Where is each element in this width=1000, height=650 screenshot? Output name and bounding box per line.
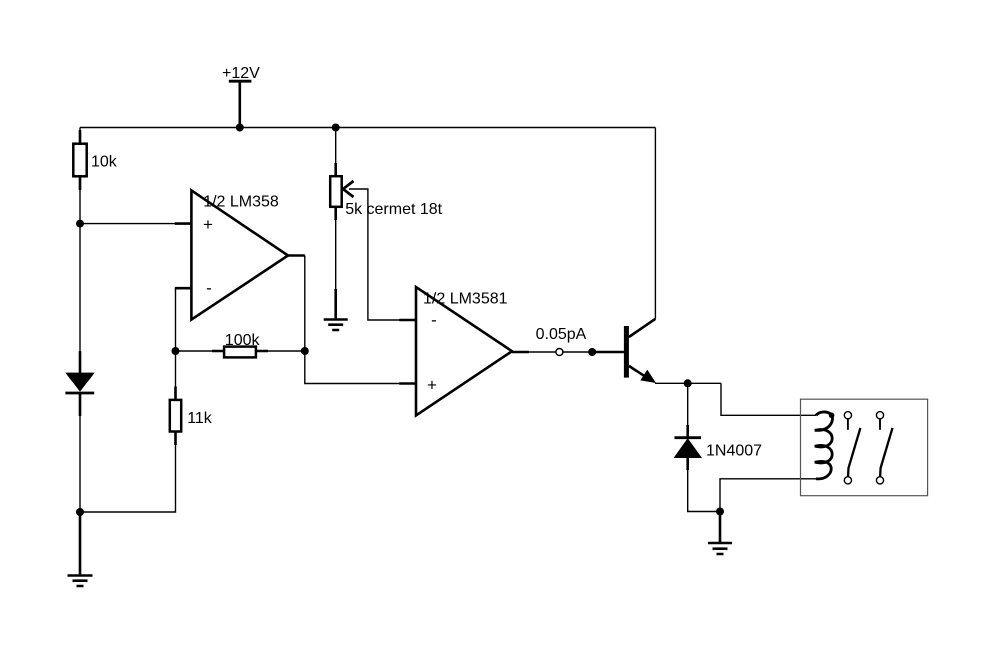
wire +input junction to op-amp U1 + stub [80,223,176,225]
junction U1 + input [76,220,84,228]
wire U2 output to probe circle [529,351,556,353]
wire left rail upper segment [79,128,81,144]
wire 100k body to right junction [268,350,305,352]
svg-text:11k: 11k [187,410,213,427]
diode D2 1N4007 [675,425,702,470]
svg-text:1/2 LM358: 1/2 LM358 [203,194,279,211]
potentiometer 5k cermet [330,163,353,220]
wire +input junction down to diode D1 [79,224,81,351]
wire emitter junction down to diode D2 [687,383,689,425]
resistor R1 10k [73,130,86,190]
relay switch S1 [844,412,860,484]
svg-text:1/2 LM3581: 1/2 LM3581 [423,291,508,308]
junction emitter [684,379,692,387]
wire top rail from left rail to collector drop [80,127,655,129]
svg-text:-: - [206,278,212,297]
relay coil L1 [815,412,833,479]
wire U1 output down to 100k right junction and U2 + input [305,256,400,384]
svg-text:100k: 100k [225,332,261,349]
svg-text:5k cermet 18t: 5k cermet 18t [345,201,442,218]
wiper arrow [343,181,354,197]
junction +12V rail [236,124,244,132]
ground G2 (5k bottom) [324,289,348,330]
junction 100k right [301,347,309,355]
junction base [588,348,596,356]
wire 5k bottom to ground G2 [335,220,337,290]
probe circle 0.05pA [556,349,563,356]
relay coil dot [829,413,835,419]
svg-text:0.05pA: 0.05pA [536,326,587,343]
wire base junction to transistor base bar [592,351,624,354]
wire diode D2 bottom to ground junction [688,470,720,512]
svg-text:1N4007: 1N4007 [706,443,762,460]
resistor R2 100k [212,347,268,358]
relay K1 box [801,399,928,496]
wire collector up to top rail [654,128,656,319]
wire probe circle to base junction [563,351,592,353]
svg-text:-: - [431,310,437,329]
wire diode D1 bottom to lower-left junction [79,416,81,512]
wire 10k bottom to +input junction [79,190,81,224]
transistor Q1 [624,319,656,383]
op-amp U2 [399,287,529,415]
wire 5k top junction down [335,128,337,164]
wire lower-left junction to 11k bottom [80,445,176,512]
svg-text:+12V: +12V [222,65,260,82]
diode D1 [65,351,94,416]
wire +12V junction top rail (stem) [239,81,242,127]
wire wiper horizontal and down to U2 minus stub [349,189,400,320]
wire emitter to relay-top junction [655,382,721,384]
junction relay return [716,508,724,516]
resistor R3 11k [170,387,181,446]
op-amp U1 [175,190,305,319]
ground G1 (lower left) [68,512,93,586]
ground G3 (relay return) [708,512,732,555]
junction lower left [76,508,84,516]
svg-text:+: + [427,376,437,395]
wire 11k top to 100k-left junction to U1 minus [175,288,177,386]
wire 100k left junction to body [176,350,213,352]
junction 100k left [172,347,180,355]
relay switch S2 [876,412,892,484]
+12V supply bar [229,80,252,83]
wire relay coil top feed [721,383,816,415]
svg-text:10k: 10k [91,154,118,171]
svg-text:+: + [203,215,213,234]
junction 5k top [332,124,340,132]
wire relay coil bottom return [720,479,816,512]
